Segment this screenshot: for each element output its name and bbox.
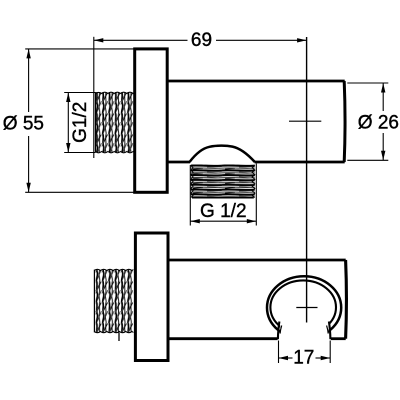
svg-text:G 1/2: G 1/2 <box>200 201 246 222</box>
svg-text:Ø 55: Ø 55 <box>3 114 44 135</box>
svg-text:69: 69 <box>191 30 212 51</box>
svg-text:Ø 26: Ø 26 <box>358 113 399 134</box>
svg-text:G1/2: G1/2 <box>70 102 91 143</box>
svg-text:17: 17 <box>293 348 314 369</box>
